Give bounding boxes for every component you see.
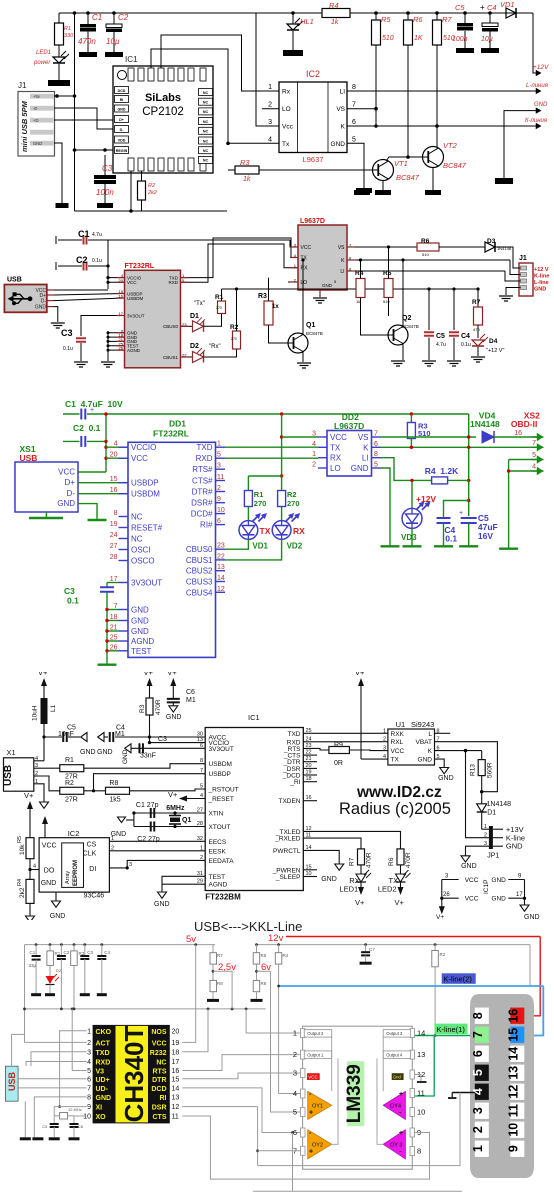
svg-text:OSCO: OSCO [131, 557, 155, 566]
svg-text:510: 510 [382, 35, 394, 42]
svg-text:RX: RX [330, 454, 342, 463]
svg-text:R6: R6 [413, 15, 423, 24]
svg-text:510: 510 [383, 299, 390, 304]
svg-text:16V: 16V [478, 531, 493, 541]
svg-text:FT232RL: FT232RL [125, 263, 155, 270]
svg-text:18: 18 [172, 1049, 180, 1056]
svg-text:15: 15 [506, 1028, 520, 1042]
svg-text:EEDATA: EEDATA [209, 858, 235, 865]
svg-text:330: 330 [64, 33, 74, 39]
svg-text:4: 4 [532, 464, 536, 471]
svg-text:XI: XI [96, 1105, 103, 1112]
svg-text:4.7u: 4.7u [436, 342, 446, 348]
svg-text:L9637D: L9637D [300, 218, 325, 225]
svg-text:V+: V+ [144, 672, 154, 677]
svg-text:11: 11 [506, 1104, 520, 1117]
svg-text:11: 11 [217, 474, 224, 481]
svg-text:560R: 560R [487, 762, 494, 778]
svg-text:+: + [480, 3, 485, 12]
svg-text:RX: RX [301, 266, 309, 272]
svg-text:8: 8 [417, 1147, 421, 1156]
svg-text:NC: NC [131, 513, 143, 522]
svg-text:28: 28 [197, 821, 203, 827]
svg-text:4: 4 [268, 136, 272, 143]
svg-text:20: 20 [172, 1028, 180, 1035]
svg-text:+D: +D [33, 118, 38, 123]
svg-text:270: 270 [254, 499, 267, 508]
svg-text:10µ: 10µ [106, 37, 120, 46]
svg-text:10: 10 [506, 1123, 520, 1137]
svg-text:D+: D+ [119, 118, 124, 122]
svg-text:1: 1 [87, 1028, 91, 1035]
svg-text:7: 7 [352, 102, 356, 109]
svg-text:R4: R4 [17, 879, 23, 886]
svg-text:VCCIO: VCCIO [131, 443, 156, 452]
svg-text:29: 29 [197, 879, 203, 885]
svg-text:5: 5 [217, 452, 221, 459]
svg-text:1: 1 [217, 441, 221, 448]
svg-text:DTR: DTR [152, 1077, 166, 1084]
svg-text:UD-: UD- [96, 1086, 109, 1093]
svg-text:VDD: VDD [118, 138, 126, 142]
svg-text:+: + [459, 510, 463, 517]
svg-text:5: 5 [87, 1068, 91, 1075]
svg-text:OY4: OY4 [390, 1104, 401, 1110]
svg-text:7: 7 [471, 1031, 485, 1038]
svg-text:LI: LI [362, 454, 369, 463]
svg-text:GND: GND [491, 877, 506, 884]
svg-text:RX: RX [293, 526, 305, 536]
svg-text:DCD: DCD [118, 89, 126, 93]
svg-text:V+: V+ [395, 898, 405, 907]
svg-text:XO: XO [96, 1114, 107, 1121]
svg-text:8: 8 [352, 84, 356, 91]
svg-text:OSCI: OSCI [131, 546, 151, 555]
svg-text:GND: GND [131, 606, 149, 615]
svg-text:R8: R8 [217, 981, 223, 986]
svg-text:R5: R5 [381, 15, 391, 24]
svg-text:R1: R1 [65, 757, 74, 764]
svg-text:+: + [399, 1130, 403, 1137]
svg-text:10: 10 [217, 507, 225, 514]
svg-text:Vcc: Vcc [282, 124, 294, 131]
svg-text:NOS: NOS [151, 1029, 167, 1036]
svg-text:OY2: OY2 [312, 1143, 323, 1149]
svg-text:C5: C5 [42, 1124, 48, 1129]
svg-text:GND: GND [35, 305, 47, 311]
svg-text:Radius (c)2005: Radius (c)2005 [339, 800, 451, 818]
svg-text:L1: L1 [50, 704, 57, 712]
svg-text:EEPROM: EEPROM [73, 860, 79, 886]
svg-text:OY1: OY1 [312, 1104, 323, 1110]
svg-text:CKO: CKO [96, 1029, 112, 1036]
svg-text:LI: LI [340, 89, 346, 96]
svg-text:GND: GND [321, 876, 337, 883]
svg-text:DCD: DCD [151, 1086, 166, 1093]
svg-text:NC: NC [203, 139, 209, 143]
svg-text:C1: C1 [78, 229, 90, 239]
svg-text:"Rx": "Rx" [209, 344, 221, 350]
svg-text:D+: D+ [65, 478, 76, 487]
svg-text:GND: GND [166, 714, 182, 721]
svg-text:DSR#: DSR# [191, 499, 213, 508]
svg-text:4: 4 [471, 1088, 485, 1095]
svg-text:RI: RI [160, 1095, 167, 1102]
svg-text:CP2102: CP2102 [142, 106, 184, 118]
svg-text:1: 1 [111, 836, 114, 842]
svg-text:Output 2: Output 2 [307, 1031, 324, 1036]
svg-text:470R: 470R [405, 852, 412, 868]
svg-text:5: 5 [471, 1069, 485, 1076]
svg-text:R5: R5 [261, 953, 267, 958]
svg-text:IC1: IC1 [248, 713, 260, 722]
svg-text:17: 17 [172, 1059, 180, 1066]
svg-text:K: K [428, 748, 433, 755]
svg-text:R4: R4 [355, 270, 364, 277]
svg-text:4: 4 [114, 441, 118, 448]
svg-text:RXK: RXK [391, 731, 405, 738]
svg-text:Tx: Tx [282, 141, 290, 148]
svg-text:9: 9 [518, 874, 522, 880]
svg-text:0.1u: 0.1u [63, 346, 73, 352]
svg-text:GND: GND [491, 896, 506, 903]
svg-text:J1: J1 [519, 255, 527, 262]
svg-text:3: 3 [312, 431, 316, 438]
svg-text:15: 15 [172, 1076, 180, 1083]
svg-text:10uH: 10uH [32, 705, 39, 721]
svg-text:14: 14 [217, 575, 225, 582]
svg-text:1: 1 [471, 1145, 485, 1152]
svg-text:IC1: IC1 [125, 55, 138, 64]
svg-text:9: 9 [87, 1104, 91, 1111]
svg-text:DD1: DD1 [169, 419, 186, 429]
svg-text:Array: Array [65, 871, 71, 884]
svg-text:16: 16 [506, 1009, 520, 1023]
svg-text:_RSTOUT: _RSTOUT [208, 787, 239, 794]
svg-text:NC: NC [203, 120, 209, 124]
svg-text:TXD: TXD [96, 1050, 110, 1057]
svg-text:GND: GND [41, 880, 57, 887]
svg-text:R7: R7 [472, 299, 481, 306]
svg-text:3: 3 [484, 841, 487, 847]
svg-text:16: 16 [514, 430, 522, 437]
svg-text:GND: GND [118, 107, 126, 111]
svg-text:K-line(2): K-line(2) [444, 975, 473, 984]
svg-text:LO: LO [282, 106, 291, 113]
svg-text:AGND: AGND [127, 348, 141, 353]
svg-text:C2 0.1: C2 0.1 [73, 423, 101, 433]
svg-text:AGND: AGND [131, 637, 154, 646]
svg-text:GND: GND [331, 141, 346, 148]
svg-text:7: 7 [532, 440, 536, 447]
svg-text:0R: 0R [334, 760, 343, 767]
svg-text:TX: TX [260, 526, 271, 536]
svg-text:M1: M1 [186, 697, 196, 704]
svg-text:+12V: +12V [533, 64, 549, 71]
svg-text:VS: VS [338, 245, 345, 251]
svg-text:USB: USB [3, 765, 14, 786]
svg-text:2k2: 2k2 [19, 887, 26, 898]
svg-text:+: + [399, 1091, 403, 1098]
svg-text:USB: USB [7, 277, 22, 284]
svg-text:R3: R3 [240, 158, 250, 167]
svg-text:12: 12 [217, 586, 225, 593]
svg-text:VS: VS [336, 106, 345, 113]
svg-text:CBUS2: CBUS2 [186, 567, 213, 576]
svg-text:4: 4 [87, 1059, 91, 1066]
svg-text:V+: V+ [168, 790, 178, 799]
svg-text:6: 6 [352, 119, 356, 126]
svg-text:26: 26 [443, 892, 450, 898]
svg-text:R3: R3 [139, 704, 146, 713]
svg-text:HL1: HL1 [300, 17, 314, 26]
svg-text:7: 7 [87, 1085, 91, 1092]
svg-text:470R: 470R [155, 699, 162, 715]
svg-text:VCC: VCC [391, 748, 405, 755]
svg-text:3V3OUT: 3V3OUT [127, 313, 145, 318]
svg-text:3: 3 [471, 1107, 485, 1114]
svg-text:USBDP: USBDP [131, 479, 159, 488]
svg-text:VCC: VCC [308, 1075, 318, 1080]
svg-text:17: 17 [516, 892, 523, 898]
svg-text:3V3OUT: 3V3OUT [131, 579, 162, 588]
svg-text:C4: C4 [461, 333, 470, 340]
svg-text:GND: GND [534, 102, 548, 108]
svg-text:R1: R1 [215, 294, 224, 301]
svg-text:Q1: Q1 [182, 817, 191, 824]
svg-text:DSR: DSR [152, 1105, 167, 1112]
svg-text:10k: 10k [19, 844, 26, 855]
svg-text:C4: C4 [104, 950, 110, 955]
svg-text:10: 10 [417, 1108, 425, 1117]
svg-text:FT232RL: FT232RL [153, 429, 189, 439]
svg-text:0.1: 0.1 [445, 534, 457, 544]
svg-text:R5: R5 [383, 270, 392, 277]
svg-text:CH340T: CH340T [119, 1025, 149, 1122]
svg-text:C3: C3 [102, 164, 113, 173]
svg-text:USB: USB [7, 1071, 17, 1091]
svg-text:27R: 27R [65, 797, 78, 804]
svg-text:3: 3 [293, 1069, 297, 1078]
svg-text:NC: NC [203, 149, 209, 153]
svg-text:VCC: VCC [465, 877, 479, 884]
svg-text:5: 5 [374, 462, 378, 469]
svg-text:CTS: CTS [153, 1114, 167, 1121]
svg-text:1k: 1k [356, 299, 360, 304]
svg-text:16: 16 [110, 487, 118, 494]
svg-text:2: 2 [87, 1040, 91, 1047]
svg-text:L-линия: L-линия [526, 83, 549, 89]
svg-text:K: K [363, 443, 369, 452]
svg-text:NC: NC [203, 101, 209, 105]
svg-text:5: 5 [293, 1108, 297, 1117]
svg-text:2: 2 [312, 462, 316, 469]
svg-text:-D: -D [33, 106, 37, 111]
svg-text:LO: LO [301, 280, 308, 286]
svg-text:C3: C3 [61, 328, 73, 338]
svg-text:EESK: EESK [209, 848, 227, 855]
svg-text:L9637D: L9637D [334, 421, 364, 431]
svg-text:TXD: TXD [197, 443, 213, 452]
svg-text:DTR#: DTR# [192, 488, 213, 497]
svg-text:LI: LI [340, 269, 344, 275]
svg-text:32: 32 [197, 836, 203, 842]
svg-text:13: 13 [506, 1066, 520, 1080]
svg-text:D2: D2 [190, 343, 199, 350]
svg-text:3: 3 [129, 862, 132, 868]
svg-text:NC: NC [131, 535, 143, 544]
svg-text:23: 23 [217, 543, 225, 550]
svg-text:270: 270 [231, 337, 237, 341]
svg-text:10nF: 10nF [58, 731, 74, 738]
svg-text:R6: R6 [421, 238, 430, 245]
svg-text:270: 270 [287, 499, 300, 508]
svg-text:LED1: LED1 [339, 885, 358, 894]
svg-text:1: 1 [312, 451, 316, 458]
svg-text:4: 4 [33, 864, 36, 870]
svg-text:2: 2 [471, 1126, 485, 1133]
svg-text:5v: 5v [186, 934, 196, 945]
svg-text:GND: GND [534, 287, 546, 293]
svg-text:XTOUT: XTOUT [209, 824, 231, 831]
svg-text:GND: GND [154, 901, 170, 908]
svg-text:C3: C3 [158, 736, 167, 743]
svg-text:V+: V+ [355, 898, 365, 907]
svg-text:GND: GND [57, 499, 75, 508]
svg-text:AGND: AGND [209, 882, 228, 889]
svg-text:10µ: 10µ [481, 36, 493, 43]
svg-text:DCD#: DCD# [191, 510, 213, 519]
svg-text:L9637: L9637 [303, 155, 324, 164]
svg-text:"+12 V": "+12 V" [486, 348, 504, 354]
svg-text:CLK: CLK [83, 851, 97, 858]
svg-text:IC2: IC2 [306, 69, 320, 79]
svg-text:22: 22 [217, 553, 225, 560]
svg-text:GND: GND [50, 913, 66, 920]
svg-text:"Tx": "Tx" [194, 301, 205, 307]
svg-text:1x: 1x [272, 304, 279, 310]
svg-text:SiLabs: SiLabs [145, 92, 181, 104]
svg-text:0.1: 0.1 [67, 596, 79, 606]
svg-text:NC: NC [203, 110, 209, 114]
svg-text:4: 4 [312, 441, 316, 448]
svg-text:USBDM: USBDM [127, 296, 144, 301]
svg-text:GND: GND [33, 141, 42, 146]
svg-text:REGIN: REGIN [116, 149, 128, 153]
svg-text:BC847: BC847 [443, 161, 467, 170]
svg-text:16: 16 [172, 1068, 180, 1075]
svg-text:_RESET: _RESET [208, 796, 234, 803]
svg-text:14: 14 [172, 1085, 180, 1092]
svg-text:2: 2 [111, 846, 114, 852]
svg-text:3V3OUT: 3V3OUT [209, 746, 234, 753]
svg-text:R3: R3 [258, 293, 267, 300]
svg-text:R6: R6 [261, 981, 267, 986]
svg-text:LED2: LED2 [378, 885, 397, 894]
svg-text:_RI: _RI [289, 779, 300, 786]
svg-text:C1: C1 [92, 13, 102, 22]
svg-text:8: 8 [114, 510, 118, 517]
svg-text:www.ID2.cz: www.ID2.cz [356, 784, 442, 801]
svg-text:V+: V+ [355, 672, 365, 677]
svg-text:CBUS0: CBUS0 [186, 545, 213, 554]
svg-text:C5: C5 [455, 3, 465, 12]
svg-text:C1 27p: C1 27p [136, 802, 159, 809]
svg-text:R2: R2 [440, 952, 446, 957]
svg-text:V+: V+ [38, 672, 48, 677]
svg-text:R4 1.2K: R4 1.2K [425, 466, 459, 476]
svg-text:RTS#: RTS# [192, 465, 213, 474]
svg-text:TXD: TXD [288, 731, 301, 738]
svg-text:K: K [341, 124, 346, 131]
svg-text:C3: C3 [87, 950, 93, 955]
svg-text:Q1: Q1 [306, 322, 315, 329]
svg-text:R7: R7 [349, 857, 356, 866]
svg-text:1: 1 [35, 779, 38, 785]
svg-text:4: 4 [200, 793, 203, 799]
svg-text:1: 1 [293, 1029, 297, 1038]
svg-text:C2: C2 [64, 950, 70, 955]
svg-text:LO: LO [330, 464, 341, 473]
svg-text:2: 2 [35, 771, 38, 777]
svg-text:X1: X1 [7, 748, 16, 757]
svg-text:CS: CS [87, 842, 97, 849]
svg-text:GND: GND [506, 842, 523, 851]
svg-text:11: 11 [417, 1089, 425, 1098]
svg-text:VCC: VCC [152, 1040, 167, 1047]
svg-text:6: 6 [374, 441, 378, 448]
svg-text:6: 6 [200, 743, 203, 749]
svg-text:RI: RI [120, 98, 124, 102]
svg-text:+: + [90, 407, 94, 414]
svg-text:24: 24 [110, 532, 118, 539]
svg-text:Output 4: Output 4 [386, 1052, 403, 1057]
svg-text:100n: 100n [452, 36, 468, 43]
svg-text:VD3: VD3 [401, 533, 417, 542]
svg-text:13: 13 [172, 1094, 180, 1101]
svg-text:NC: NC [203, 130, 209, 134]
svg-text:9: 9 [506, 1145, 520, 1152]
svg-text:CTS#: CTS# [192, 477, 213, 486]
svg-text:R4: R4 [283, 953, 289, 958]
svg-text:6: 6 [471, 1050, 485, 1057]
svg-text:D4: D4 [489, 338, 498, 345]
svg-text:470n: 470n [78, 37, 96, 46]
svg-text:VD1: VD1 [252, 542, 268, 551]
svg-text:GND: GND [322, 283, 333, 288]
svg-text:V+: V+ [24, 791, 34, 800]
svg-text:J1: J1 [18, 81, 27, 90]
svg-text:12v: 12v [268, 933, 284, 944]
svg-text:RXD: RXD [168, 280, 178, 285]
svg-text:CBUS4: CBUS4 [186, 588, 213, 597]
svg-text:RXD: RXD [96, 1060, 111, 1067]
svg-text:K-line: K-line [534, 274, 549, 280]
svg-text:5: 5 [532, 452, 536, 459]
svg-text:14: 14 [506, 1047, 520, 1061]
svg-text:GND: GND [80, 749, 96, 756]
svg-text:L: L [428, 731, 432, 738]
svg-text:GND: GND [122, 749, 129, 764]
svg-text:RI#: RI# [200, 521, 213, 530]
svg-text:R13: R13 [470, 764, 477, 776]
svg-text:V+: V+ [167, 672, 177, 677]
svg-text:NC: NC [156, 1060, 166, 1067]
svg-text:+5v: +5v [33, 94, 41, 99]
svg-text:PWRCTL: PWRCTL [273, 848, 301, 855]
svg-text:0.1u: 0.1u [92, 258, 102, 264]
svg-text:R1: R1 [64, 26, 71, 32]
